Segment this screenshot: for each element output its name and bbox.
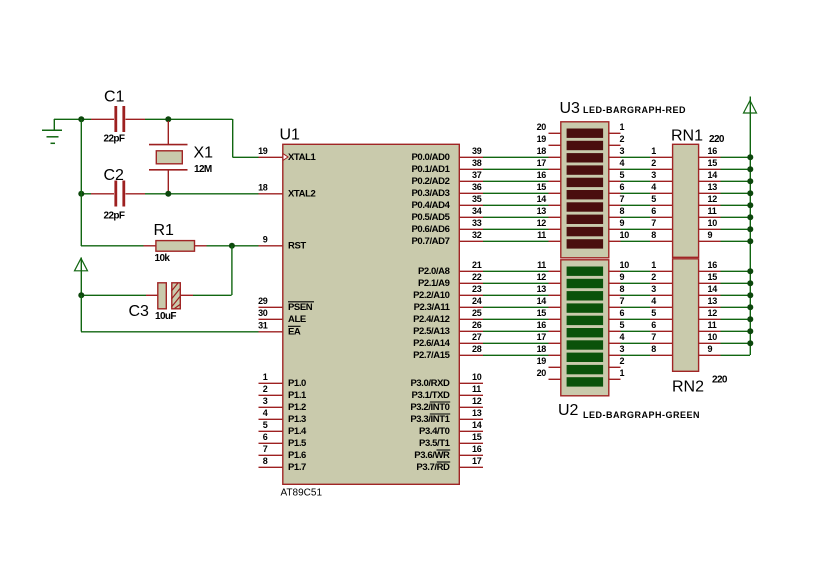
svg-text:P1.0: P1.0 xyxy=(288,378,306,389)
svg-text:P3.1/TXD: P3.1/TXD xyxy=(412,390,451,401)
svg-text:11: 11 xyxy=(708,320,717,330)
svg-text:3: 3 xyxy=(620,146,625,156)
svg-text:5: 5 xyxy=(620,170,625,180)
svg-text:2: 2 xyxy=(651,272,656,282)
svg-text:220: 220 xyxy=(709,134,725,145)
svg-text:U3: U3 xyxy=(560,100,581,117)
svg-text:14: 14 xyxy=(537,296,547,306)
svg-text:P2.2/A10: P2.2/A10 xyxy=(413,290,450,301)
svg-text:RN1: RN1 xyxy=(671,128,703,145)
svg-text:9: 9 xyxy=(708,230,713,240)
svg-text:28: 28 xyxy=(472,344,482,354)
svg-text:1: 1 xyxy=(651,146,656,156)
svg-text:P2.6/A14: P2.6/A14 xyxy=(413,338,451,349)
svg-text:X1: X1 xyxy=(194,144,214,161)
svg-text:19: 19 xyxy=(258,146,268,156)
svg-text:3: 3 xyxy=(651,170,656,180)
svg-text:4: 4 xyxy=(651,296,656,306)
svg-text:18: 18 xyxy=(537,146,547,156)
svg-text:P3.3/INT1: P3.3/INT1 xyxy=(410,414,450,425)
svg-text:EA: EA xyxy=(288,327,301,338)
svg-text:AT89C51: AT89C51 xyxy=(281,488,323,499)
svg-text:8: 8 xyxy=(620,284,625,294)
svg-text:P0.7/AD7: P0.7/AD7 xyxy=(412,236,450,247)
svg-text:6: 6 xyxy=(620,182,625,192)
svg-text:P3.4/T0: P3.4/T0 xyxy=(419,426,450,437)
svg-text:15: 15 xyxy=(472,432,482,442)
svg-text:16: 16 xyxy=(708,146,718,156)
svg-text:5: 5 xyxy=(263,420,268,430)
svg-text:4: 4 xyxy=(263,408,268,418)
svg-text:P1.5: P1.5 xyxy=(288,438,307,449)
svg-text:4: 4 xyxy=(620,158,625,168)
svg-text:33: 33 xyxy=(472,218,482,228)
svg-text:21: 21 xyxy=(472,260,482,270)
svg-text:25: 25 xyxy=(472,308,482,318)
svg-text:P0.6/AD6: P0.6/AD6 xyxy=(412,224,450,235)
svg-text:P3.0/RXD: P3.0/RXD xyxy=(410,378,450,389)
svg-text:13: 13 xyxy=(472,408,482,418)
svg-text:10uF: 10uF xyxy=(155,311,176,322)
svg-text:11: 11 xyxy=(708,206,717,216)
svg-text:P3.7/RD: P3.7/RD xyxy=(416,462,450,473)
svg-text:U1: U1 xyxy=(280,127,301,144)
svg-text:11: 11 xyxy=(537,230,546,240)
svg-text:1: 1 xyxy=(620,368,625,378)
svg-text:XTAL2: XTAL2 xyxy=(288,189,315,200)
svg-text:36: 36 xyxy=(472,182,482,192)
svg-text:7: 7 xyxy=(263,444,268,454)
svg-text:P0.4/AD4: P0.4/AD4 xyxy=(412,200,451,211)
svg-text:P0.5/AD5: P0.5/AD5 xyxy=(412,212,451,223)
svg-text:12: 12 xyxy=(708,194,718,204)
svg-text:16: 16 xyxy=(537,320,547,330)
svg-text:PSEN: PSEN xyxy=(288,302,313,313)
svg-text:11: 11 xyxy=(537,260,546,270)
svg-text:23: 23 xyxy=(472,284,482,294)
svg-text:14: 14 xyxy=(537,194,547,204)
svg-text:3: 3 xyxy=(263,396,268,406)
svg-text:P1.1: P1.1 xyxy=(288,390,307,401)
svg-text:2: 2 xyxy=(620,356,625,366)
svg-text:13: 13 xyxy=(708,182,718,192)
svg-text:6: 6 xyxy=(263,432,268,442)
svg-text:12: 12 xyxy=(537,272,547,282)
svg-text:16: 16 xyxy=(472,444,482,454)
svg-text:14: 14 xyxy=(708,284,718,294)
svg-text:4: 4 xyxy=(651,182,656,192)
svg-text:8: 8 xyxy=(651,344,656,354)
svg-text:8: 8 xyxy=(263,456,268,466)
svg-text:P1.2: P1.2 xyxy=(288,402,306,413)
svg-text:8: 8 xyxy=(651,230,656,240)
svg-text:12: 12 xyxy=(537,218,547,228)
svg-text:P1.3: P1.3 xyxy=(288,414,306,425)
svg-text:8: 8 xyxy=(620,206,625,216)
svg-text:2: 2 xyxy=(263,384,268,394)
svg-text:13: 13 xyxy=(537,284,547,294)
svg-text:13: 13 xyxy=(537,206,547,216)
svg-text:14: 14 xyxy=(472,420,482,430)
svg-text:3: 3 xyxy=(651,284,656,294)
svg-text:3: 3 xyxy=(620,344,625,354)
svg-text:19: 19 xyxy=(537,134,547,144)
svg-text:27: 27 xyxy=(472,332,482,342)
svg-text:10: 10 xyxy=(620,260,630,270)
svg-text:10: 10 xyxy=(472,372,482,382)
svg-text:38: 38 xyxy=(472,158,482,168)
svg-text:C1: C1 xyxy=(104,89,125,106)
svg-text:P2.4/A12: P2.4/A12 xyxy=(413,314,450,325)
svg-text:22: 22 xyxy=(472,272,482,282)
svg-text:5: 5 xyxy=(620,320,625,330)
svg-text:16: 16 xyxy=(537,170,547,180)
svg-text:9: 9 xyxy=(263,235,268,245)
svg-text:9: 9 xyxy=(708,344,713,354)
svg-text:P2.1/A9: P2.1/A9 xyxy=(418,278,450,289)
svg-text:LED-BARGRAPH-RED: LED-BARGRAPH-RED xyxy=(583,105,686,115)
svg-text:6: 6 xyxy=(651,206,656,216)
svg-text:18: 18 xyxy=(258,183,268,193)
svg-text:22pF: 22pF xyxy=(104,133,125,144)
svg-text:20: 20 xyxy=(537,368,547,378)
svg-text:17: 17 xyxy=(537,158,547,168)
svg-text:22pF: 22pF xyxy=(104,210,125,221)
svg-text:LED-BARGRAPH-GREEN: LED-BARGRAPH-GREEN xyxy=(583,410,700,420)
svg-text:20: 20 xyxy=(537,122,547,132)
svg-text:P2.0/A8: P2.0/A8 xyxy=(418,266,450,277)
svg-text:P3.6/WR: P3.6/WR xyxy=(414,450,450,461)
svg-text:12: 12 xyxy=(472,396,482,406)
svg-text:17: 17 xyxy=(472,456,482,466)
svg-text:9: 9 xyxy=(620,218,625,228)
svg-text:P2.3/A11: P2.3/A11 xyxy=(414,302,451,313)
svg-text:R1: R1 xyxy=(154,222,175,239)
svg-text:2: 2 xyxy=(620,134,625,144)
svg-text:15: 15 xyxy=(708,272,718,282)
svg-text:39: 39 xyxy=(472,146,482,156)
svg-text:2: 2 xyxy=(651,158,656,168)
svg-text:15: 15 xyxy=(537,308,547,318)
svg-text:P3.2/INT0: P3.2/INT0 xyxy=(410,402,449,413)
svg-text:7: 7 xyxy=(620,296,625,306)
svg-text:19: 19 xyxy=(537,356,547,366)
svg-text:26: 26 xyxy=(472,320,482,330)
svg-text:C3: C3 xyxy=(129,303,150,320)
svg-text:P1.4: P1.4 xyxy=(288,426,307,437)
svg-text:10: 10 xyxy=(708,332,718,342)
svg-text:P2.5/A13: P2.5/A13 xyxy=(413,326,450,337)
svg-text:12: 12 xyxy=(708,308,718,318)
svg-text:P0.1/AD1: P0.1/AD1 xyxy=(412,164,451,175)
svg-text:31: 31 xyxy=(258,321,268,331)
svg-text:RST: RST xyxy=(288,241,306,252)
svg-text:7: 7 xyxy=(620,194,625,204)
svg-text:16: 16 xyxy=(708,260,718,270)
svg-text:34: 34 xyxy=(472,206,482,216)
svg-text:U2: U2 xyxy=(558,402,579,419)
svg-text:P1.7: P1.7 xyxy=(288,462,306,473)
svg-text:1: 1 xyxy=(620,122,625,132)
svg-text:10: 10 xyxy=(708,218,718,228)
svg-text:30: 30 xyxy=(258,308,268,318)
svg-text:XTAL1: XTAL1 xyxy=(288,152,316,163)
svg-text:P0.3/AD3: P0.3/AD3 xyxy=(412,188,450,199)
svg-text:220: 220 xyxy=(712,375,728,386)
svg-text:RN2: RN2 xyxy=(672,379,704,396)
svg-text:5: 5 xyxy=(651,308,656,318)
svg-text:12M: 12M xyxy=(194,164,212,175)
svg-text:4: 4 xyxy=(620,332,625,342)
svg-text:18: 18 xyxy=(537,344,547,354)
svg-text:P0.2/AD2: P0.2/AD2 xyxy=(412,176,450,187)
svg-text:9: 9 xyxy=(620,272,625,282)
svg-text:15: 15 xyxy=(708,158,718,168)
svg-text:29: 29 xyxy=(258,296,268,306)
svg-text:37: 37 xyxy=(472,170,482,180)
svg-text:11: 11 xyxy=(472,384,481,394)
svg-text:35: 35 xyxy=(472,194,482,204)
svg-text:24: 24 xyxy=(472,296,482,306)
svg-text:14: 14 xyxy=(708,170,718,180)
svg-text:10: 10 xyxy=(620,230,630,240)
svg-text:7: 7 xyxy=(651,218,656,228)
svg-text:5: 5 xyxy=(651,194,656,204)
svg-text:7: 7 xyxy=(651,332,656,342)
svg-text:1: 1 xyxy=(651,260,656,270)
svg-text:10k: 10k xyxy=(155,253,171,264)
svg-text:C2: C2 xyxy=(104,167,125,184)
svg-text:6: 6 xyxy=(651,320,656,330)
svg-text:15: 15 xyxy=(537,182,547,192)
svg-text:P1.6: P1.6 xyxy=(288,450,306,461)
svg-text:17: 17 xyxy=(537,332,547,342)
svg-text:P3.5/T1: P3.5/T1 xyxy=(419,438,451,449)
svg-text:1: 1 xyxy=(263,372,268,382)
svg-text:P0.0/AD0: P0.0/AD0 xyxy=(412,152,450,163)
svg-text:32: 32 xyxy=(472,230,482,240)
svg-text:6: 6 xyxy=(620,308,625,318)
svg-text:P2.7/A15: P2.7/A15 xyxy=(413,350,451,361)
svg-text:13: 13 xyxy=(708,296,718,306)
svg-text:ALE: ALE xyxy=(288,314,306,325)
